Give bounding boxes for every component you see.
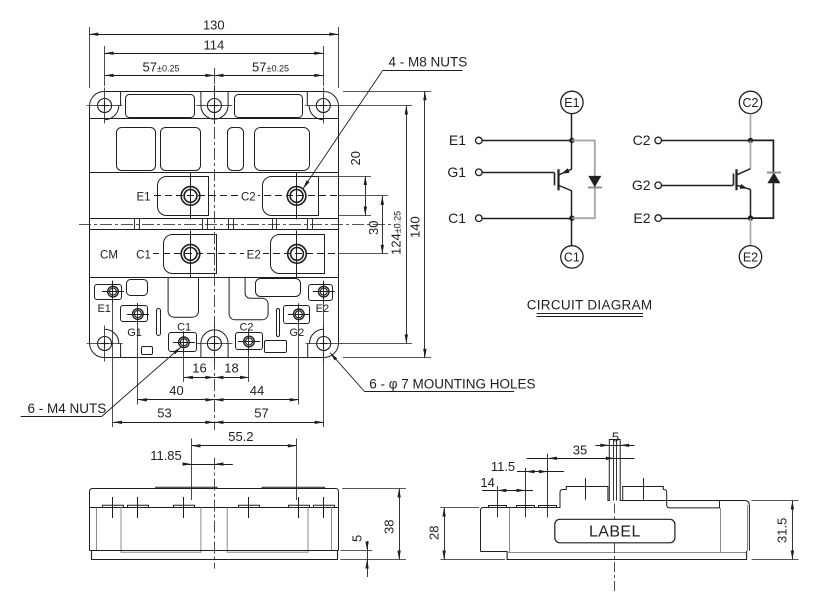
row2 cutout 2 — [161, 128, 201, 171]
terminal nut C2 (M8) — [287, 187, 306, 206]
diode D2 branch wire — [751, 140, 774, 172]
terminal pad C2 — [263, 177, 319, 216]
svg-text:6 - φ 7 MOUNTING HOLES: 6 - φ 7 MOUNTING HOLES — [369, 377, 535, 392]
IGBT Q1 body bar — [557, 169, 559, 190]
diode D1 branch wire — [572, 141, 595, 177]
terminal row2 dashed centerline — [152, 253, 338, 255]
svg-text:5: 5 — [612, 430, 619, 445]
IGBT Q1 collector bottom — [559, 186, 572, 191]
svg-text:6 - M4 NUTS: 6 - M4 NUTS — [28, 401, 107, 416]
svg-text:11.5: 11.5 — [491, 459, 515, 474]
dimension 140 — [343, 91, 431, 93]
svg-text:4 - M8 NUTS: 4 - M8 NUTS — [389, 55, 468, 70]
top cover opening left — [126, 95, 195, 118]
svg-text:G1: G1 — [127, 327, 142, 339]
side view hidden rim edge — [623, 500, 721, 502]
svg-text:E1: E1 — [564, 96, 579, 110]
terminal G1 pin — [476, 169, 483, 176]
front view inner blocks — [96, 508, 98, 551]
svg-text:LABEL: LABEL — [589, 524, 641, 541]
svg-text:31.5: 31.5 — [775, 518, 790, 543]
svg-text:57: 57 — [254, 405, 268, 420]
node C2-rail — [748, 138, 753, 143]
row2 cutout wide — [255, 128, 310, 171]
svg-text:18: 18 — [224, 360, 238, 375]
terminal C2 pin — [655, 137, 662, 144]
svg-text:G2: G2 — [632, 177, 651, 193]
dimension 38 — [342, 488, 406, 490]
svg-text:E2: E2 — [633, 210, 650, 226]
node C1-rail — [569, 216, 574, 221]
dimension 114 — [104, 46, 106, 86]
corner boss top-right — [323, 91, 338, 105]
dimension 28 — [441, 507, 480, 509]
front view case outline — [90, 489, 339, 551]
svg-text:53: 53 — [157, 405, 171, 420]
bottom center boss — [201, 330, 228, 358]
aux small rect bottom-center-right — [265, 341, 287, 353]
mounting hole bottom-left — [98, 337, 112, 351]
svg-text:E2: E2 — [316, 303, 329, 315]
aux pad E2 — [309, 285, 333, 301]
IGBT Q2 gate lead — [733, 174, 735, 186]
row2 cutout narrow — [228, 128, 244, 171]
dimension 31.5 — [752, 500, 799, 502]
module horizontal centerline — [79, 224, 395, 226]
svg-text:28: 28 — [427, 526, 442, 540]
mounting hole top-right — [316, 99, 330, 113]
top cover opening right — [235, 95, 303, 118]
mounting hole bottom-center — [207, 337, 221, 351]
mounting hole bottom-right — [317, 337, 331, 351]
side view bottom / baseplate — [481, 551, 747, 560]
dimension 5 baseplate — [340, 550, 372, 552]
svg-text:E1: E1 — [449, 132, 466, 148]
wire E1 — [482, 140, 572, 142]
wire E1-top to node — [571, 114, 573, 141]
aux nut G2 (M4) — [294, 309, 305, 320]
side view fin inner lines — [613, 440, 615, 501]
terminal E2 pin — [655, 215, 662, 222]
mid band slots — [134, 219, 136, 230]
svg-text:11.85: 11.85 — [150, 448, 182, 463]
svg-text:C1: C1 — [177, 322, 191, 334]
svg-text:C1: C1 — [136, 249, 151, 261]
row2 cutout 1 — [117, 128, 156, 171]
top view module outline — [105, 91, 308, 93]
terminal pad E2 — [271, 235, 325, 274]
svg-text:E2: E2 — [247, 249, 261, 261]
side view label plate — [555, 519, 675, 543]
svg-text:C1: C1 — [448, 210, 466, 226]
svg-text:E2: E2 — [743, 250, 758, 264]
dimension 18 — [214, 377, 249, 379]
wire C2-top to node — [750, 114, 752, 141]
svg-text:E1: E1 — [97, 303, 110, 315]
wire C1 — [482, 218, 572, 220]
IGBT Q1 emitter top with arrow — [571, 141, 573, 170]
svg-text:C2: C2 — [743, 96, 759, 110]
aux nut E1 (M4) — [108, 286, 119, 297]
front view deck line — [90, 507, 339, 509]
svg-text:5: 5 — [350, 535, 365, 542]
dimension 16 — [183, 352, 185, 382]
side view main deck screw crosses — [585, 478, 587, 500]
terminal row1 dashed centerline — [154, 195, 338, 197]
terminal nut C1 (M8) — [181, 245, 200, 264]
IGBT Q2 emitter bottom with arrow — [737, 185, 750, 189]
side view body outline — [481, 440, 750, 552]
dimension 57 bottom — [214, 422, 323, 424]
svg-text:E1: E1 — [136, 191, 150, 203]
front view baseplate — [90, 550, 339, 552]
svg-text:CM: CM — [100, 249, 118, 261]
dimension 124 — [341, 105, 412, 107]
svg-text:CIRCUIT DIAGRAM: CIRCUIT DIAGRAM — [527, 298, 653, 313]
circuit terminal C1 bottom — [571, 218, 573, 246]
aux pad C1 — [169, 333, 197, 352]
terminal pad E1 — [158, 177, 209, 216]
IGBT Q1 gate lead — [554, 173, 556, 186]
wire G1 — [482, 172, 554, 174]
svg-text:G1: G1 — [447, 164, 466, 180]
dimension 20 — [319, 176, 371, 178]
dimension 53 — [112, 281, 114, 427]
terminal nut E2 (M8) — [288, 245, 307, 264]
terminal C1 pin — [476, 215, 483, 222]
label E2 main — [244, 247, 263, 260]
node E2-rail — [748, 215, 753, 220]
diode D1 — [588, 187, 602, 189]
diode D2 — [767, 172, 781, 174]
aux small rect bottom-left — [142, 347, 153, 355]
svg-text:14: 14 — [480, 475, 494, 490]
svg-text:44: 44 — [250, 383, 264, 398]
svg-text:20: 20 — [348, 151, 363, 165]
svg-text:114: 114 — [204, 38, 225, 53]
terminal G2 pin — [655, 182, 662, 189]
side view aux bumps — [489, 506, 507, 508]
svg-text:35: 35 — [573, 443, 587, 458]
svg-text:40: 40 — [169, 383, 183, 398]
front view screw crosses — [112, 497, 114, 518]
terminal E1 pin — [476, 137, 483, 144]
circuit terminal E2 bottom — [750, 218, 752, 246]
wire E2 — [662, 218, 751, 220]
svg-text:130: 130 — [203, 18, 225, 33]
label E1 main — [134, 189, 153, 202]
node E1/C2-rail — [569, 138, 574, 143]
aux pad G2 — [284, 306, 310, 324]
svg-text:C2: C2 — [241, 191, 256, 203]
terminal pad C1 — [164, 235, 217, 274]
dimension 55.2 — [191, 439, 193, 501]
corner boss bottom-right — [324, 344, 339, 358]
svg-text:55.2: 55.2 — [228, 429, 253, 444]
svg-text:30: 30 — [366, 221, 381, 235]
svg-text:G2: G2 — [290, 327, 305, 339]
aux nut E2 (M4) — [318, 286, 329, 297]
dimension 130 — [89, 27, 91, 88]
label C2 main — [239, 189, 258, 202]
IGBT Q2 body bar — [735, 169, 737, 190]
svg-text:140: 140 — [408, 216, 423, 238]
top strip bottom line — [90, 118, 339, 120]
svg-text:C1: C1 — [564, 251, 580, 265]
front view top tabs — [156, 487, 217, 488]
dimension 30 — [382, 196, 384, 254]
aux pad C2 — [236, 333, 263, 350]
aux cutout small left — [127, 280, 148, 296]
corner boss bottom-left — [90, 344, 105, 358]
aux cutout C1 slot — [168, 278, 198, 318]
mounting hole top-left — [98, 99, 112, 113]
module vertical centerline — [214, 85, 216, 430]
dimension 44 — [214, 399, 298, 401]
terminal band lines — [90, 172, 339, 174]
aux nut C1 (M4) — [179, 337, 190, 348]
dimension 40 — [137, 325, 139, 405]
aux pad G1 — [121, 306, 148, 322]
top center boss — [201, 92, 228, 120]
circuit IGBT1 terminal E1 top — [561, 91, 583, 113]
svg-text:16: 16 — [192, 360, 206, 375]
svg-text:38: 38 — [382, 520, 397, 534]
aux pad E1 — [95, 285, 122, 300]
front view nut bumps — [103, 505, 124, 507]
corner boss top-left — [90, 91, 105, 105]
aux nut G1 (M4) — [133, 309, 144, 320]
dimension 57 right — [214, 75, 323, 77]
IGBT Q2 collector top — [750, 140, 752, 168]
aux cutout L-shape right — [229, 277, 268, 320]
svg-text:C2: C2 — [239, 322, 253, 334]
dimension 57 left — [214, 68, 216, 84]
front view centerline — [214, 458, 216, 569]
mounting hole top-center — [207, 99, 221, 113]
circuit IGBT2 terminal C2 top — [739, 91, 761, 113]
dimension 11.85 — [183, 464, 233, 466]
svg-text:C2: C2 — [633, 132, 651, 148]
label C1 main — [134, 247, 153, 260]
label CM — [98, 247, 120, 260]
aux slot narrow left — [157, 309, 161, 336]
side view aux screw crosses — [497, 486, 499, 518]
side view centerline — [614, 504, 616, 520]
aux slot narrow right — [277, 309, 280, 337]
wire G2 — [662, 185, 734, 187]
aux cutout top right — [256, 279, 301, 297]
wire C2 — [662, 140, 751, 142]
aux nut C2 (M4) — [244, 336, 255, 347]
